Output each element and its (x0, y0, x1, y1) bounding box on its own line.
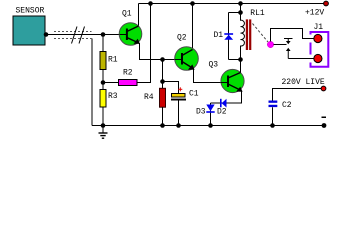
svg-text:R2: R2 (123, 69, 133, 78)
+12V rail (139, 3, 327, 5)
junction D3/ground rail (208, 123, 213, 128)
resistor R4 (160, 88, 166, 107)
wire screen down to ground rail (91, 39, 93, 126)
junction C2/ground rail (270, 123, 275, 128)
cable break slash 1 (72, 27, 78, 44)
contact NO arrow (up) (286, 48, 291, 59)
capacitor C1 (171, 87, 199, 100)
resistor R3 (100, 90, 106, 108)
wire R3 bottom lead (102, 107, 104, 126)
relay coil (241, 13, 245, 60)
cable break slash 2 (79, 27, 85, 44)
capacitor C2 (269, 101, 292, 111)
relay core bars (246, 19, 248, 50)
svg-text:Q3: Q3 (209, 61, 219, 70)
wire top junction to D1 (229, 12, 241, 14)
junction rail/R2 (148, 1, 153, 6)
wire rail to relay top junction (240, 4, 242, 13)
ground rail (92, 125, 324, 127)
junction emitter line / down branch (160, 57, 165, 62)
junction at sensor output (44, 32, 49, 37)
transistor Q3 (209, 61, 245, 93)
pin 1 (314, 34, 322, 42)
transistor Q1 (119, 4, 142, 46)
node 220V LIVE (273, 78, 326, 101)
diode D1 (224, 33, 233, 35)
diode D1 branch wire (228, 13, 230, 60)
svg-text:SENSOR: SENSOR (16, 7, 45, 16)
svg-text:J1: J1 (314, 23, 324, 32)
wire R3 top lead (102, 83, 104, 90)
junction R4/C1 (160, 79, 165, 84)
resistor R1 (100, 52, 106, 70)
svg-text:R3: R3 (108, 92, 118, 101)
ground (99, 126, 108, 139)
wire sensor output to Q1 base (45, 34, 120, 36)
svg-text:RL1: RL1 (250, 9, 265, 18)
wire Q3 emitter down to D2 (211, 91, 242, 103)
wire common stub (274, 44, 287, 46)
svg-text:R1: R1 (108, 56, 118, 65)
svg-text:Q1: Q1 (122, 10, 132, 19)
junction R1/R2/R3 (101, 80, 106, 85)
cable screen dashed lower (54, 38, 92, 40)
relay RL1 (214, 4, 269, 62)
connector J1 (311, 23, 329, 67)
junction rail/Q2 collector (190, 1, 195, 6)
junction rail/R3-ground (101, 123, 106, 128)
wire C1 top lead (163, 82, 179, 94)
diode D3 (196, 103, 215, 126)
svg-text:R4: R4 (144, 93, 154, 102)
armature dashed link (253, 24, 269, 43)
diode D2 (217, 99, 227, 117)
wire C2 bottom lead (272, 107, 274, 125)
pin 2 (314, 54, 322, 62)
svg-text:D1: D1 (214, 31, 224, 40)
cable screen dashed upper (54, 31, 92, 33)
svg-text:Q2: Q2 (177, 34, 187, 43)
junction R4/ground rail (160, 123, 165, 128)
wire D1 bottom to collector junction (229, 59, 241, 61)
relay common contact (magenta) (267, 41, 273, 47)
junction node sensor line / R1 (101, 32, 106, 37)
wire NO contact to J1 pin2 (288, 58, 314, 60)
wire R1 top lead (102, 35, 104, 52)
junction C1/ground rail (176, 123, 181, 128)
label minus (322, 117, 327, 119)
wire common to J1 pin1 (271, 29, 315, 42)
transistor Q2 (175, 4, 199, 71)
wire R2 right lead to +12V rail (137, 4, 151, 83)
sensor box (13, 16, 45, 45)
wire R4 bottom lead (162, 107, 164, 126)
svg-text:C2: C2 (282, 101, 292, 110)
wire Q2 emitter to Q3 base (194, 69, 222, 83)
svg-text:D3: D3 (196, 108, 206, 117)
wire branch down to R4/C1 (162, 60, 164, 90)
svg-text:C1: C1 (189, 90, 199, 99)
contact NC arrow (down) (284, 39, 293, 45)
wire Q3 collector up to relay (240, 60, 242, 73)
svg-text:+12V: +12V (305, 9, 324, 18)
terminal negative black dot (322, 123, 327, 128)
wire R1 bottom lead (102, 70, 104, 83)
terminal +12V red dot (324, 1, 329, 6)
resistor R2 (119, 80, 138, 86)
svg-text:D2: D2 (217, 108, 227, 117)
wire C1 bottom lead (178, 101, 180, 126)
wire Q1 emitter to Q2 base (140, 43, 175, 60)
wire R2 left lead (103, 82, 119, 84)
svg-text:220V LIVE: 220V LIVE (282, 78, 325, 87)
junction rail/relay (238, 1, 243, 6)
